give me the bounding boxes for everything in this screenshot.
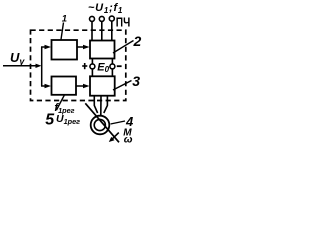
block 5 (voltage channel) xyxy=(52,77,77,95)
shaft line through motor xyxy=(85,103,119,142)
leader for label 1 xyxy=(61,23,64,40)
arrowhead torque xyxy=(109,137,115,142)
leader for label 2 xyxy=(113,41,134,54)
motor M inner circle xyxy=(94,119,105,130)
wire stub to block 1 xyxy=(41,46,46,48)
leader for label 5 xyxy=(57,95,65,110)
arrowhead into block 1 xyxy=(45,45,52,50)
wire branch vertical xyxy=(41,47,43,86)
wire block2 to E0 terminal right xyxy=(111,59,113,77)
wire Uy input xyxy=(3,65,38,67)
block 3 (inverter) xyxy=(90,76,115,95)
leader for label 3 xyxy=(113,81,132,91)
block 2 (frequency converter ПЧ) xyxy=(90,41,115,59)
svg-text:3: 3 xyxy=(132,73,140,89)
wire T2 to block2 xyxy=(101,21,103,40)
terminal T3 xyxy=(109,16,114,21)
wire block2 to E0 terminal left xyxy=(91,59,93,77)
wire block1 to block2 xyxy=(77,46,84,48)
torque arrow crossing shaft xyxy=(112,133,119,140)
wire T3 to block2 xyxy=(111,21,113,40)
dashed enclosure box xyxy=(31,30,126,100)
label minus xyxy=(117,65,122,67)
svg-text:1: 1 xyxy=(62,14,67,25)
svg-text:2: 2 xyxy=(133,33,142,49)
terminal E0 right xyxy=(110,64,115,69)
svg-text:5: 5 xyxy=(45,112,55,129)
leader for label 4 xyxy=(111,121,126,124)
wire T1 to block2 xyxy=(91,21,93,40)
arrowhead into block 3 xyxy=(83,84,90,89)
svg-text:ПЧ: ПЧ xyxy=(116,15,131,30)
wire block5 to block3 xyxy=(76,85,84,87)
label + (DC link plus) xyxy=(82,63,87,69)
wire block3 to motor middle xyxy=(100,96,102,115)
arrowhead into block 5 xyxy=(45,84,52,89)
wire block3 to motor right xyxy=(104,96,108,113)
svg-text:ω: ω xyxy=(124,133,133,145)
arrowhead into block 2 xyxy=(83,45,90,50)
motor M outer circle xyxy=(91,116,110,135)
terminal T2 xyxy=(99,16,104,21)
terminal T1 xyxy=(90,16,95,21)
terminal E0 left xyxy=(90,64,95,69)
arrowhead Uy into branch xyxy=(36,64,42,68)
block 1 (control channel) xyxy=(52,40,78,60)
wire block3 to motor left xyxy=(94,96,97,113)
wire stub to block 5 xyxy=(41,85,46,87)
